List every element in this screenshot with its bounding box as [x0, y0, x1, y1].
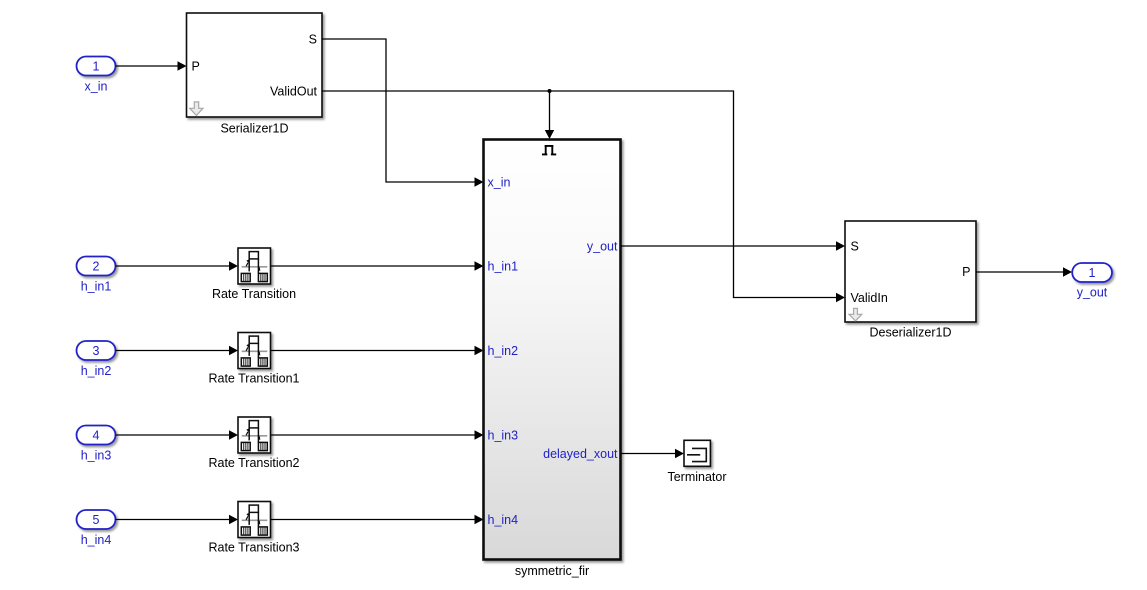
- wire branch to symmetric_fir trigger: [545, 91, 554, 139]
- svg-text:4: 4: [93, 429, 100, 443]
- wire symmetric_fir y_out to Deserializer1D S: [621, 241, 846, 250]
- outport 1 (y_out): [1072, 263, 1112, 282]
- block symmetric_fir: [484, 140, 621, 560]
- svg-text:1: 1: [93, 60, 100, 74]
- block Serializer1D: [187, 13, 323, 117]
- wire Deserializer1D P to outport y_out: [976, 267, 1072, 276]
- svg-text:Serializer1D: Serializer1D: [220, 121, 288, 135]
- svg-text:symmetric_fir: symmetric_fir: [515, 564, 589, 578]
- inport 4 (h_in3): [77, 426, 116, 445]
- block Rate Transition3: [238, 502, 271, 538]
- svg-text:Rate Transition: Rate Transition: [212, 287, 296, 301]
- svg-text:Terminator: Terminator: [667, 470, 726, 484]
- inport 2 (h_in1): [77, 257, 116, 276]
- gray sample-time arrow icon: [849, 308, 862, 321]
- svg-text:Deserializer1D: Deserializer1D: [870, 326, 952, 340]
- block Rate Transition1: [238, 333, 271, 369]
- wire Rate Transition3 to symmetric_fir h_in4: [271, 515, 484, 524]
- svg-text:3: 3: [93, 344, 100, 358]
- svg-text:h_in1: h_in1: [81, 280, 112, 294]
- inport 3 (h_in2): [77, 341, 116, 360]
- svg-text:Rate Transition3: Rate Transition3: [208, 540, 299, 554]
- wire Serializer1D S to symmetric_fir x_in: [322, 39, 484, 187]
- svg-text:5: 5: [93, 513, 100, 527]
- svg-text:P: P: [962, 265, 970, 279]
- svg-text:y_out: y_out: [1077, 286, 1108, 300]
- wire inport5 to Rate Transition3: [116, 515, 239, 524]
- wire Rate Transition to symmetric_fir h_in1: [271, 261, 484, 270]
- wire symmetric_fir delayed_xout to Terminator: [621, 449, 685, 458]
- svg-text:h_in4: h_in4: [81, 533, 112, 547]
- svg-text:y_out: y_out: [587, 240, 618, 254]
- block Rate Transition2: [238, 417, 271, 453]
- svg-text:ValidOut: ValidOut: [270, 85, 318, 99]
- svg-text:delayed_xout: delayed_xout: [543, 447, 618, 461]
- wire inport4 to Rate Transition2: [116, 430, 239, 439]
- block Terminator: [684, 440, 710, 466]
- svg-text:h_in3: h_in3: [488, 429, 519, 443]
- svg-text:x_in: x_in: [488, 176, 511, 190]
- wire Serializer1D ValidOut to Deserializer1D ValidIn: [322, 91, 845, 302]
- gray sample-time arrow icon: [190, 102, 203, 116]
- wire Rate Transition1 to symmetric_fir h_in2: [271, 346, 484, 355]
- svg-text:2: 2: [93, 260, 100, 274]
- svg-text:h_in2: h_in2: [81, 364, 112, 378]
- svg-text:Rate Transition1: Rate Transition1: [208, 371, 299, 385]
- svg-text:h_in3: h_in3: [81, 449, 112, 463]
- wire inport2 to Rate Transition: [116, 261, 239, 270]
- svg-text:ValidIn: ValidIn: [851, 291, 888, 305]
- trigger pulse icon: [542, 146, 556, 155]
- svg-text:P: P: [192, 60, 200, 74]
- svg-text:1: 1: [1089, 266, 1096, 280]
- svg-text:S: S: [851, 240, 859, 254]
- svg-text:h_in2: h_in2: [488, 344, 519, 358]
- wire inport1 to Serializer1D P: [116, 61, 187, 70]
- wire Rate Transition2 to symmetric_fir h_in3: [271, 430, 484, 439]
- svg-text:x_in: x_in: [85, 80, 108, 94]
- svg-text:S: S: [309, 33, 317, 47]
- wire inport3 to Rate Transition1: [116, 346, 239, 355]
- svg-text:Rate Transition2: Rate Transition2: [208, 456, 299, 470]
- inport 1 (x_in): [77, 57, 116, 76]
- svg-text:h_in1: h_in1: [488, 260, 519, 274]
- inport 5 (h_in4): [77, 510, 116, 529]
- svg-text:h_in4: h_in4: [488, 513, 519, 527]
- junction node on ValidOut wire: [548, 89, 552, 93]
- block Deserializer1D: [845, 221, 976, 322]
- block Rate Transition: [238, 248, 271, 284]
